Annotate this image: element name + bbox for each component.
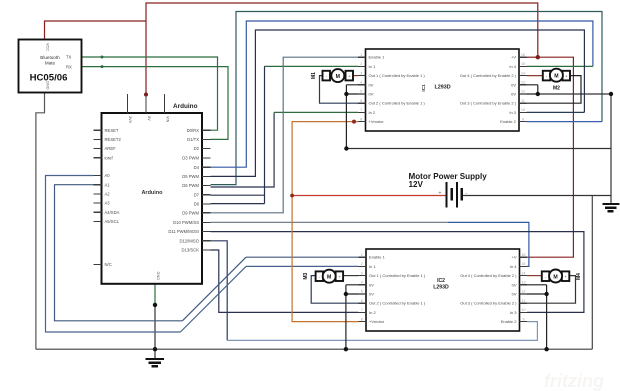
wire IC1 In3 horizontal — [527, 111, 585, 113]
svg-text:0V: 0V — [511, 82, 516, 87]
svg-text:0V: 0V — [512, 292, 517, 297]
svg-text:D4: D4 — [194, 165, 200, 170]
svg-text:D13/SCK: D13/SCK — [182, 248, 200, 253]
svg-text:Out 1 ( Controlled by Enable 1: Out 1 ( Controlled by Enable 1 ) — [369, 73, 426, 78]
svg-text:D0/RX: D0/RX — [187, 128, 200, 133]
svg-text:Out 1 ( Controlled by Enable 1: Out 1 ( Controlled by Enable 1 ) — [369, 273, 426, 278]
wire In1 riser down to D7 and D8 — [264, 66, 266, 203]
wire IC1 Enable2 stub to riser — [527, 121, 603, 123]
wire M2 wrap to IC1 Out3 — [527, 76, 582, 104]
svg-text:IC1: IC1 — [421, 84, 426, 92]
svg-text:5V: 5V — [147, 116, 151, 121]
label IC1 pin names left — [369, 55, 426, 124]
svg-text:9: 9 — [522, 117, 524, 121]
Arduino right pin stubs — [202, 130, 211, 250]
svg-text:M: M — [336, 74, 340, 80]
svg-text:10: 10 — [521, 108, 525, 112]
svg-text:Out 3 ( Controlled by Enable 2: Out 3 ( Controlled by Enable 2 ) — [460, 301, 517, 306]
wire M4 to IC2 Out4 — [527, 275, 542, 277]
svg-text:2: 2 — [361, 262, 363, 266]
svg-text:D3 PWM: D3 PWM — [182, 156, 199, 161]
svg-text:Arduino: Arduino — [141, 190, 163, 196]
IC2 L293D body — [366, 249, 520, 331]
svg-text:IC2: IC2 — [437, 278, 445, 284]
svg-text:In 1: In 1 — [369, 264, 376, 269]
svg-text:0V: 0V — [369, 282, 374, 287]
svg-text:GND: GND — [46, 81, 50, 90]
wire D8 horizontal — [211, 203, 265, 205]
svg-text:1: 1 — [361, 253, 363, 257]
wire IC1 In1 horizontal green — [264, 65, 358, 67]
junction dot IC2 left 0V bus — [344, 347, 348, 351]
svg-text:M: M — [327, 275, 331, 281]
svg-text:1: 1 — [360, 53, 362, 57]
wire battery minus down to ground bus — [591, 196, 593, 350]
junction dot IC2 left 0V — [344, 292, 348, 296]
Arduino top pin stubs 3V3 5V VIN — [127, 94, 164, 113]
wire IC1 +V stub to junction — [527, 56, 538, 58]
wire IC1 left 0V bracket — [346, 85, 365, 149]
svg-text:A3: A3 — [105, 201, 111, 206]
IC1 left pin stubs — [358, 57, 366, 121]
wire Arduino 5V up to top red bus to IC1 +V — [146, 3, 538, 95]
IC2 left pin stubs — [359, 257, 367, 321]
svg-text:12: 12 — [521, 90, 525, 94]
svg-text:6: 6 — [360, 99, 362, 103]
svg-text:In 4: In 4 — [509, 64, 516, 69]
wire M2 to IC1 Out4 — [527, 75, 544, 77]
svg-text:D11 PWM/MOSI: D11 PWM/MOSI — [168, 229, 199, 234]
svg-text:AREF: AREF — [105, 146, 117, 151]
svg-text:15: 15 — [521, 62, 525, 66]
svg-text:GND: GND — [156, 272, 160, 281]
svg-text:A1: A1 — [105, 182, 111, 187]
wire Bluetooth GND down left side to ground bus — [36, 93, 45, 350]
wire +V junction to IC2 +V via right red riser — [527, 57, 574, 257]
wire IC1 In2 horizontal — [274, 111, 358, 113]
svg-text:D12/MISO: D12/MISO — [179, 238, 199, 243]
svg-text:M: M — [553, 274, 557, 280]
wire D11 to IC2 In3 — [211, 232, 584, 313]
junction dot battery plus orange riser — [290, 194, 294, 198]
svg-text:11: 11 — [522, 299, 526, 303]
svg-text:0V: 0V — [369, 92, 374, 97]
svg-text:VCC: VCC — [46, 43, 50, 51]
label Arduino top pin names — [128, 116, 169, 280]
junction dot IC2 right 0V — [544, 292, 548, 296]
svg-text:3: 3 — [361, 271, 363, 275]
wire battery minus to right ground — [462, 195, 612, 197]
svg-text:A5/SCL: A5/SCL — [105, 219, 120, 224]
svg-text:3: 3 — [360, 71, 362, 75]
svg-text:fritzing: fritzing — [544, 371, 604, 391]
wire M1 wrap to IC1 Out2 — [320, 76, 359, 104]
svg-text:A4/SDA: A4/SDA — [105, 210, 120, 215]
wire IC2 Enable1 horizontal — [246, 256, 359, 258]
svg-text:4: 4 — [360, 81, 362, 85]
svg-text:Mate: Mate — [45, 61, 56, 66]
wire A1 left drop toward diagonal — [55, 185, 183, 321]
svg-text:4: 4 — [361, 281, 363, 285]
svg-text:13: 13 — [521, 81, 525, 85]
svg-text:N/C: N/C — [105, 262, 112, 267]
svg-text:D10 PWM/SS: D10 PWM/SS — [173, 220, 199, 225]
wire M4 wrap to IC2 Out3 — [527, 276, 576, 304]
svg-text:D8: D8 — [194, 202, 200, 207]
wire Arduino GND pin green segment — [154, 284, 156, 305]
label IC1 pin names right — [460, 55, 517, 124]
svg-text:7: 7 — [361, 308, 363, 312]
wire bottom light-blue run to IC2 Enable2 — [227, 322, 537, 341]
svg-text:6: 6 — [361, 299, 363, 303]
WIRES_DIAG — [180, 257, 246, 332]
svg-text:0V: 0V — [511, 92, 516, 97]
junction dot ground bus at Arduino GND — [153, 347, 157, 351]
svg-text:D7: D7 — [194, 192, 200, 197]
motor M3 — [316, 270, 344, 283]
wire D10 gray segment — [211, 221, 449, 223]
wire IC2 left 0V bracket to ground bus — [346, 285, 366, 349]
svg-text:Out 2 ( Controlled by Enable 1: Out 2 ( Controlled by Enable 1 ) — [369, 101, 426, 106]
junction dot BT RX bend — [101, 65, 104, 68]
svg-text:15: 15 — [522, 262, 526, 266]
wire D13 to IC2 In2 — [211, 250, 359, 312]
wire D4 to blue top bus to IC1 In4 riser — [211, 21, 593, 167]
svg-text:In 3: In 3 — [509, 110, 516, 115]
wire D5 to navy top bus to IC1 In3 riser — [211, 30, 585, 176]
IC1 L293D body — [366, 49, 520, 131]
wire ground bus bottom — [36, 348, 592, 350]
svg-text:D1/TX: D1/TX — [187, 137, 199, 142]
svg-text:In 3: In 3 — [510, 310, 517, 315]
svg-text:A2: A2 — [105, 192, 111, 197]
svg-text:+Vmotor: +Vmotor — [369, 119, 385, 124]
svg-text:+V: +V — [511, 55, 516, 60]
motor M4 — [542, 270, 570, 283]
motor M1 — [323, 69, 354, 82]
svg-text:RX: RX — [66, 64, 72, 69]
IC2 right pin stubs — [520, 257, 528, 321]
label Arduino left pin names — [105, 128, 122, 267]
svg-text:Enable 2: Enable 2 — [501, 319, 518, 324]
svg-text:D2: D2 — [194, 146, 200, 151]
svg-text:TX: TX — [66, 55, 72, 60]
svg-text:D9 PWM: D9 PWM — [182, 210, 199, 215]
wire M3 to IC2 Out1 — [343, 275, 359, 277]
svg-text:12V: 12V — [409, 180, 424, 189]
bluetooth module HC05/06 body — [19, 40, 82, 93]
svg-text:13: 13 — [522, 281, 526, 285]
svg-text:8: 8 — [360, 117, 362, 121]
junction dot IC2 right 0V bus — [544, 347, 548, 351]
svg-text:A0: A0 — [105, 173, 111, 178]
junction dot +Vmotor bend — [352, 120, 356, 124]
svg-text:In 2: In 2 — [369, 310, 376, 315]
svg-text:12: 12 — [522, 290, 526, 294]
svg-text:+V: +V — [511, 255, 516, 260]
svg-text:16: 16 — [521, 53, 525, 57]
svg-text:RESET2: RESET2 — [105, 137, 122, 142]
svg-text:M: M — [554, 74, 558, 80]
label Arduino right pin names — [168, 128, 199, 253]
svg-text:8: 8 — [361, 317, 363, 321]
IC1 right pin stubs — [519, 57, 527, 121]
svg-text:16: 16 — [522, 253, 526, 257]
svg-text:0V: 0V — [369, 292, 374, 297]
svg-text:11: 11 — [521, 99, 525, 103]
svg-text:2: 2 — [360, 62, 362, 66]
svg-text:Out 4 ( Controlled by Enable 2: Out 4 ( Controlled by Enable 2 ) — [460, 273, 517, 278]
wire D10 blue segment to IC2 In4 — [448, 222, 529, 266]
svg-text:VIN: VIN — [165, 116, 169, 123]
svg-text:M1: M1 — [311, 72, 317, 79]
wire IC2 In1 horizontal — [246, 265, 359, 267]
svg-text:Out 4 ( Controlled by Enable 2: Out 4 ( Controlled by Enable 2 ) — [460, 73, 517, 78]
svg-text:+: + — [439, 191, 442, 197]
svg-text:5: 5 — [360, 90, 362, 94]
wire IC1 In4 horizontal — [527, 65, 593, 67]
svg-text:10: 10 — [522, 308, 526, 312]
wire Bluetooth RX to Arduino D1/TX — [82, 67, 229, 140]
wire M3 wrap to IC2 Out2 — [311, 276, 358, 304]
wire battery plus to orange riser — [292, 195, 446, 197]
wire IC1 0V to right ground riser horizontal — [346, 148, 611, 150]
wire IC1 right 0V bracket — [519, 85, 538, 94]
battery Motor Power Supply 12V — [446, 182, 463, 208]
wire A0 left drop toward diagonal — [46, 176, 181, 333]
svg-text:ioref: ioref — [105, 155, 114, 160]
svg-text:0V: 0V — [512, 282, 517, 287]
svg-text:In 1: In 1 — [369, 64, 376, 69]
wire Bluetooth VCC to 5V rail — [45, 21, 147, 40]
wire Arduino GND to ground symbol — [154, 305, 156, 359]
svg-text:L293D: L293D — [435, 84, 451, 90]
wire D6 to IC1 In2 riser — [211, 112, 275, 187]
wire D12 down riser — [211, 241, 228, 341]
wire orange +Vmotor IC1 to IC2 — [292, 122, 358, 322]
motor M2 — [543, 69, 570, 82]
wire D7 horizontal — [211, 194, 265, 196]
svg-text:D6 PWM: D6 PWM — [182, 183, 199, 188]
svg-text:M4: M4 — [576, 273, 582, 280]
ground symbol right — [602, 203, 619, 212]
label Bluetooth module texts — [30, 43, 72, 90]
wire right ground riser — [610, 94, 612, 204]
svg-text:Arduino: Arduino — [173, 103, 198, 110]
svg-text:Out 3 ( Controlled by Enable 2: Out 3 ( Controlled by Enable 2 ) — [460, 101, 517, 106]
Arduino body — [102, 113, 203, 284]
svg-text:3V3: 3V3 — [128, 116, 132, 123]
junction dot IC1 right 0V — [536, 92, 540, 96]
svg-text:5: 5 — [361, 290, 363, 294]
svg-text:M2: M2 — [553, 85, 560, 91]
svg-text:0V: 0V — [369, 82, 374, 87]
svg-text:7: 7 — [360, 108, 362, 112]
wire IC2 right 0V bracket to ground bus — [520, 285, 547, 349]
svg-text:Out 2 ( Controlled by Enable 1: Out 2 ( Controlled by Enable 1 ) — [369, 301, 426, 306]
svg-text:RESET: RESET — [105, 128, 119, 133]
svg-text:Enable 2: Enable 2 — [500, 119, 517, 124]
junction dot IC1 left 0V — [344, 92, 348, 96]
svg-text:14: 14 — [521, 71, 525, 75]
wire D6 to teal top bus to IC1 Enable2 riser — [211, 12, 603, 185]
wire IC1 right 0V to right ground riser — [538, 93, 611, 95]
wire diagonal A0 to IC2 In1 — [180, 266, 246, 332]
svg-text:14: 14 — [522, 271, 526, 275]
svg-text:D5 PWM: D5 PWM — [182, 174, 199, 179]
svg-text:M3: M3 — [303, 273, 309, 280]
wire Bluetooth TX to Arduino D0/RX — [82, 57, 218, 130]
label IC2 pin names left — [369, 255, 426, 324]
ground symbol left — [145, 358, 164, 367]
svg-text:In 4: In 4 — [510, 264, 517, 269]
svg-text:9: 9 — [523, 317, 525, 321]
junction dot IC1 left 0V bus — [344, 146, 348, 150]
wire M1 to IC1 Out1 — [346, 75, 359, 77]
label IC2 pin names right — [460, 255, 517, 324]
junction dot right riser 0V — [609, 92, 613, 96]
label pin numbers IC1 — [360, 53, 525, 121]
svg-text:In 2: In 2 — [369, 110, 376, 115]
wire D9 to IC1 Enable1 — [211, 57, 359, 213]
junction dot IC1 +V — [536, 55, 540, 59]
svg-text:Enable 1: Enable 1 — [369, 55, 386, 60]
svg-text:L293D: L293D — [433, 284, 449, 290]
label motor terminal polarity marks — [319, 73, 568, 279]
junction dot Arduino 5V — [144, 93, 148, 97]
Arduino left pin stubs — [94, 130, 102, 264]
wire diagonal A1 to IC2 Enable1 — [182, 257, 246, 321]
svg-text:Bluetooth: Bluetooth — [40, 55, 60, 60]
svg-text:+Vmotor: +Vmotor — [369, 319, 385, 324]
junction dot BT TX bend — [101, 56, 104, 59]
label pin numbers IC2 — [361, 253, 526, 321]
junction dot Arduino GND — [153, 303, 157, 307]
svg-text:Enable 1: Enable 1 — [369, 255, 386, 260]
